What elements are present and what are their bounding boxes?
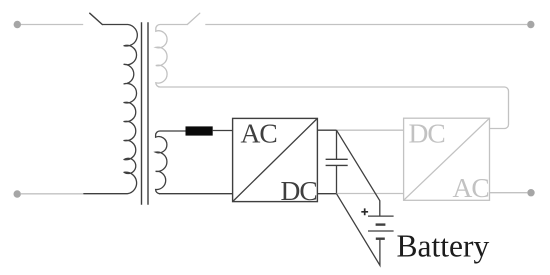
wire U1 right top to node A [317,129,336,131]
wire SW2 to terminal top-right [205,24,527,26]
svg-text:DC: DC [409,117,445,148]
battery B1 plus label [361,208,368,215]
transformer T1 primary winding [124,25,137,194]
terminal bottom-left [14,190,21,197]
switch SW1 blade [90,13,103,24]
wire battery positive diagonal [337,130,380,216]
battery B1 short plate 1 [376,223,386,225]
converter U1 box [233,118,318,201]
svg-text:AC: AC [241,117,277,148]
transformer T1 secondary winding S1 (gray) + wire to DC/AC right top [156,25,509,129]
wire U2 right bottom to terminal [490,192,528,194]
capacitor C1 top plate [326,158,348,160]
wire grid top-left lead [21,24,83,26]
wire battery negative diagonal [337,194,380,266]
wire S2 bottom to AC/DC block [159,193,233,195]
converter U1 diagonal [233,118,318,201]
battery B1 long plate 1 [368,215,394,217]
svg-text:DC: DC [281,175,317,206]
inverter U2 box (gray) [404,118,490,200]
inverter U2 diagonal (gray) [404,118,490,200]
switch SW2 blade (gray) [187,13,200,24]
wire SW1 to transformer primary [102,24,128,26]
transformer T1 secondary winding S2 [156,131,186,194]
capacitor C1 top lead [336,130,338,159]
wire grid bottom-left lead [21,193,83,195]
battery B1 short plate 2 [376,237,385,239]
wire L1 to AC/DC block [213,130,233,132]
svg-text:AC: AC [453,172,489,203]
capacitor C1 bottom lead [336,165,338,193]
transformer T1 core [142,22,149,205]
wire primary bottom [83,193,127,195]
wire node A to inverter U2 (gray) [337,129,404,131]
capacitor C1 bottom plate [326,164,348,166]
wire U1 right bottom to node B [317,193,336,195]
terminal top-left [14,21,21,28]
wire node B to inverter U2 (gray) [337,193,404,195]
battery B1 long plate 2 [368,230,394,232]
svg-text:Battery: Battery [397,229,490,264]
terminal top-right [527,21,534,28]
inductor L1 (black box) [186,126,213,135]
terminal bottom-right [527,189,534,196]
